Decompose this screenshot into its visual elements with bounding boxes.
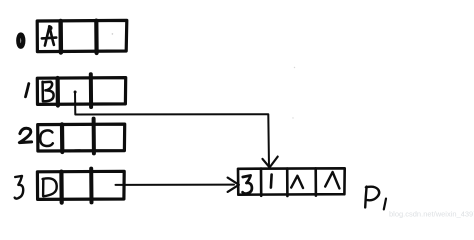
stray tick under node 2 box [75, 149, 80, 151]
node 0 cell divider 1 [58, 21, 63, 53]
P1 node box [238, 168, 345, 194]
node 0 index label "0" [18, 35, 23, 47]
svg-text:blog.csdn.net/weixin_43971252: blog.csdn.net/weixin_43971252 [389, 210, 474, 219]
pointer label subscript 1 [384, 199, 386, 210]
node 2 cell divider 1 [60, 124, 64, 152]
node 2 cell divider 2 [92, 119, 96, 154]
P1 cell value "3" [243, 175, 252, 193]
P1 cell divider 3 [314, 168, 317, 195]
faint specks [112, 33, 114, 35]
arrowhead right into P1 cell 1 [228, 178, 239, 192]
node 3 index label "3" [15, 176, 24, 199]
node 1 index label "1" [26, 84, 29, 97]
wire from node D cell to P1 [116, 184, 235, 186]
node 1 box [37, 78, 125, 105]
node 3 cell divider 1 [59, 172, 63, 203]
node 1 cell divider 1 [55, 78, 60, 106]
node 0 cell divider 2 [94, 21, 98, 53]
node 3 box [37, 171, 124, 199]
P1 cell value null "∧" [291, 176, 303, 188]
node 1 letter B [43, 82, 54, 102]
pen blob at wire start [74, 91, 77, 94]
node 2 index label "2" [19, 128, 31, 142]
P1 cell value null "∧" [325, 172, 339, 188]
P1 cell divider 1 [260, 169, 263, 196]
node 0 box [37, 20, 127, 51]
node 3 letter D [43, 178, 57, 196]
node 3 cell divider 2 [89, 169, 93, 203]
wire from node B cell to P1 (down, right, down) [75, 92, 269, 167]
node 1 cell divider 2 [89, 74, 93, 107]
node 2 box [38, 124, 125, 151]
P1 cell divider 2 [286, 169, 289, 197]
pointer label P [365, 187, 379, 208]
P1 cell value "1" [270, 175, 273, 188]
node 0 letter A [42, 26, 56, 45]
arrowhead down into P1 cell 2 [263, 157, 278, 168]
node 2 letter C [40, 130, 53, 146]
